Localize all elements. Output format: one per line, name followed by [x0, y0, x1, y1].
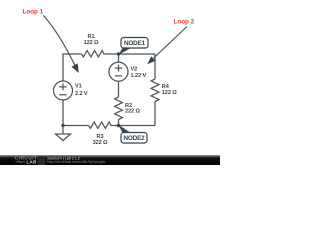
- svg-text:V1: V1: [75, 84, 82, 90]
- junction ground node: [61, 124, 64, 127]
- resistor R3: [89, 122, 112, 128]
- resistor R1: [82, 51, 105, 57]
- svg-text:322 Ω: 322 Ω: [93, 140, 108, 146]
- svg-text:222 Ω: 222 Ω: [125, 108, 140, 114]
- node label NODE2 pointer: [119, 125, 131, 133]
- junction node2 dot: [117, 124, 120, 127]
- voltage source V2: [109, 62, 128, 81]
- annotation Loop 2 arrow: [154, 27, 188, 59]
- resistor R2: [115, 97, 123, 120]
- wire middle column top: [118, 54, 120, 62]
- wire top horizontal: [63, 53, 155, 55]
- watermark logo zigzag: [16, 161, 26, 163]
- svg-text:122 Ω: 122 Ω: [84, 40, 99, 46]
- svg-text:http://circuitlab.com/c/8b7fq7: http://circuitlab.com/c/8b7fq7ycvgkv: [47, 160, 105, 164]
- voltage source V1: [54, 81, 73, 100]
- svg-text:NODE1: NODE1: [124, 40, 146, 47]
- annotation Loop 1 arrowhead: [71, 63, 78, 73]
- svg-text:R3: R3: [97, 134, 104, 140]
- annotation Loop 1 arrow: [44, 16, 77, 68]
- annotation Loop 2 arrowhead: [147, 56, 155, 64]
- svg-text:1.22 V: 1.22 V: [131, 73, 147, 79]
- wire middle column bottom: [118, 120, 120, 126]
- node label NODE1 pointer: [119, 48, 131, 55]
- wire bottom horizontal: [63, 125, 155, 127]
- svg-text:LAB: LAB: [27, 159, 38, 164]
- svg-text:2.2 V: 2.2 V: [75, 91, 88, 97]
- svg-text:NODE2: NODE2: [123, 135, 145, 142]
- svg-text:Loop 1: Loop 1: [23, 8, 44, 15]
- wire right column lower: [154, 102, 156, 126]
- svg-text:Loop 2: Loop 2: [174, 19, 195, 26]
- junction node1 dot: [117, 52, 120, 55]
- wire right column upper: [154, 54, 156, 79]
- resistor R4: [151, 79, 159, 102]
- wire middle column mid: [118, 82, 120, 98]
- ground: [56, 126, 71, 141]
- svg-text:122 Ω: 122 Ω: [162, 90, 177, 96]
- wire left column lower: [62, 100, 64, 125]
- node label NODE2: [121, 133, 147, 144]
- wire left column upper: [62, 53, 64, 80]
- node label NODE1: [121, 38, 148, 49]
- watermark divider block: [38, 156, 46, 165]
- svg-text:V2: V2: [131, 66, 138, 72]
